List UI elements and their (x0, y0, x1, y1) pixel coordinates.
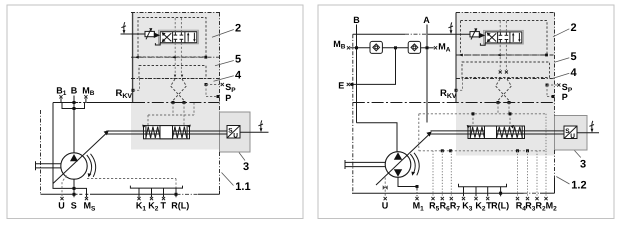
node R(L) (175, 193, 178, 196)
port risers R5 R6 R7 (432, 151, 434, 197)
node pump drain (73, 187, 76, 190)
svg-text:U: U (570, 133, 575, 140)
gray manifold block (131, 12, 220, 150)
wire between check valves (382, 47, 408, 49)
wire B1/M_B loop (62, 103, 85, 109)
pump 1.1 (61, 153, 87, 179)
node E riser top (394, 46, 397, 49)
svg-text:4: 4 (235, 70, 242, 82)
wire B main line (53, 102, 78, 104)
svg-text:1.1: 1.1 (235, 181, 250, 193)
plug x S_P R (557, 83, 560, 86)
transducer output (240, 131, 269, 133)
valve body 4/3 (160, 32, 197, 43)
node manifold pilots (472, 112, 475, 115)
box 3R transducer housing (555, 116, 588, 151)
enclosure 1.2 border top (456, 12, 555, 14)
plug x U (60, 197, 63, 200)
node P tap (217, 95, 220, 98)
svg-text:U: U (58, 201, 65, 211)
node E border (351, 83, 354, 86)
pilot manifold left (418, 114, 420, 151)
plate 5 dotted frame (139, 66, 206, 79)
port B1 stub (60, 98, 62, 102)
plug x K1 K2 T (137, 197, 140, 200)
transducer S/U R (564, 126, 577, 139)
wire pump bottom drain R (398, 177, 417, 187)
svg-text:1.2: 1.2 (571, 180, 586, 192)
wire B port riser (73, 96, 75, 154)
stroking cylinder R (468, 126, 525, 139)
pilot x marks plate 4R (499, 71, 502, 74)
pump rotation arc (87, 155, 92, 176)
plate 4 dash-dot line (131, 78, 220, 80)
spring left (146, 127, 160, 138)
solenoid proportional arrow (471, 30, 476, 40)
valve cell crossed arrows (488, 33, 497, 41)
plug x U R (384, 197, 387, 200)
pilot to cylinder left (147, 115, 149, 127)
node diamond R left (497, 101, 500, 104)
svg-text:E: E (338, 81, 344, 91)
valve sleeve (159, 30, 199, 44)
plug x M1 (415, 197, 418, 200)
enclosure 1.2 border left (352, 34, 354, 193)
pilot lines below valve (174, 43, 176, 75)
pump flow triangle (70, 154, 78, 161)
plug x K3 K2 T (462, 197, 465, 200)
piston rod (106, 130, 227, 132)
electrical signal arrow solenoid input R (450, 22, 453, 30)
node manifold R4 R3 (516, 149, 519, 152)
gray manifold block R (456, 12, 555, 156)
wire left branch (53, 103, 74, 189)
tank comb (130, 186, 182, 189)
pump rotation arc R (410, 154, 415, 174)
enclosure 1.1 border right lower (219, 152, 221, 191)
svg-text:R(L): R(L) (491, 201, 509, 211)
wire P line R (dash-dot) (353, 102, 555, 104)
riser M1 (416, 187, 418, 197)
wire A work line (426, 25, 428, 123)
pilot drop from diamond (172, 103, 174, 116)
pilot arrows at cylinder R (467, 125, 471, 129)
plate 5R dotted frame (462, 62, 550, 78)
wire solenoid lead (121, 33, 146, 35)
pump drive shaft R (345, 161, 385, 163)
pilot manifold top (419, 113, 546, 115)
pilot horizontal link (148, 114, 194, 116)
check valve B (370, 41, 382, 53)
tank comb R (459, 184, 507, 187)
spring right R (497, 127, 523, 138)
drain U (62, 176, 67, 197)
enclosure 1.2 border right lower (554, 150, 556, 178)
proportional solenoid (145, 31, 154, 36)
stroking piston R (485, 126, 497, 139)
svg-text:A: A (423, 15, 430, 25)
node B x M_B (355, 46, 358, 49)
pilot lines above valve (174, 18, 176, 32)
pilot arrows at cylinder (142, 125, 146, 129)
check valve A (408, 41, 420, 53)
wire P line inside block (133, 102, 220, 104)
section line with view arrows (131, 56, 220, 58)
node diamond right (183, 101, 186, 104)
svg-text:4: 4 (571, 67, 578, 79)
wire pump outlet down (73, 179, 75, 197)
pilot manifold bottom (419, 150, 546, 152)
feedback lever (53, 134, 106, 184)
pilot cross tap (193, 103, 195, 116)
electrical signal arrow transducer (260, 120, 263, 128)
pump flow triangle up (394, 152, 402, 159)
solenoid proportional arrow (146, 30, 151, 40)
plug x R-ports M2 (431, 197, 434, 200)
wire B work line (356, 25, 358, 123)
svg-text:3: 3 (243, 161, 249, 173)
node diamond left (172, 101, 175, 104)
valve cell closed center (499, 32, 501, 35)
wire M_A stub (421, 47, 434, 49)
enclosure 1.1 border bottom (41, 193, 78, 195)
valve cell crossed arrows (163, 33, 172, 41)
plate 4R dash-dot line (456, 78, 555, 80)
transducer S/U (227, 126, 240, 139)
node M1 drain (416, 185, 419, 188)
pump 1.2 (385, 152, 411, 178)
spring left R (470, 127, 484, 138)
svg-text:B: B (71, 85, 78, 95)
svg-text:5: 5 (571, 51, 577, 63)
valve cell parallel arrows (512, 35, 514, 42)
node manifold R6 R7 (441, 149, 444, 152)
svg-text:S: S (71, 201, 77, 211)
valve return spring hook (155, 43, 160, 45)
valve cell parallel arrows (187, 35, 189, 42)
panel frame right (318, 5, 614, 219)
transducer output R (577, 132, 599, 134)
section line R with view arrows (456, 54, 555, 56)
cylinder end caps (145, 126, 147, 139)
case drain line (87, 178, 176, 180)
solenoid actuation triangle (479, 33, 485, 39)
wire M_B stub (350, 47, 370, 49)
svg-text:U: U (382, 201, 389, 211)
svg-text:B: B (353, 15, 360, 25)
port S_P tap (205, 83, 208, 86)
port M_B stub (85, 98, 87, 102)
valve cell closed center (174, 32, 176, 35)
pump drive shaft (36, 163, 62, 165)
valve return spring hook (480, 43, 485, 45)
svg-text:P: P (562, 92, 568, 102)
svg-text:P: P (225, 93, 231, 103)
node diamond R right (508, 101, 511, 104)
node B main (73, 101, 76, 104)
node A x M_A (426, 46, 429, 49)
box 3 transducer housing (220, 112, 251, 152)
solenoid actuation triangle (154, 32, 160, 38)
wire pump outlet to B line (357, 123, 398, 152)
node S (73, 193, 76, 196)
pilot to cylinder right (183, 103, 185, 127)
node P tap R (552, 95, 555, 98)
solenoid lead long wire R (353, 33, 405, 35)
pilot crossing diamond R (496, 79, 509, 103)
wire E riser (350, 48, 396, 85)
pilots to cylinder R (472, 114, 474, 127)
svg-text:T: T (161, 201, 167, 211)
node B loop (73, 107, 76, 110)
svg-text:R(L): R(L) (171, 201, 189, 211)
pilot crossing diamond (171, 79, 184, 103)
electrical signal arrow solenoid input (123, 22, 126, 30)
orifice symbol (383, 185, 386, 190)
pilot diamond drops R (497, 103, 499, 114)
drain U R (384, 178, 386, 197)
panel frame left (7, 5, 303, 219)
port risers R4 R3 R2 M2 (517, 151, 519, 197)
svg-text:5: 5 (235, 54, 241, 66)
valve sleeve (484, 30, 524, 44)
piston rod R (431, 130, 565, 132)
svg-text:U: U (233, 133, 238, 140)
feedback lever R (376, 135, 429, 185)
wire solenoid lead R (447, 33, 471, 35)
enclosure 1.1 border right upper (219, 13, 221, 113)
pilot arrowheads into plate 4 (174, 75, 176, 78)
electrical signal arrow transducer R (591, 121, 594, 129)
port M_S link (74, 188, 87, 197)
proportional solenoid (470, 32, 479, 37)
enclosure 1.1 border top (131, 12, 220, 14)
enclosure 1.2 border right upper (554, 13, 556, 116)
svg-text:2: 2 (571, 22, 577, 34)
spring right (173, 127, 187, 138)
enclosure 1.1 border left (40, 110, 42, 194)
pump flow triangle down (394, 169, 402, 176)
stroking piston (160, 126, 173, 139)
port S_P tap R (546, 84, 549, 87)
valve body 4/3 (485, 32, 522, 43)
pilot lines below valve R (499, 45, 501, 70)
valve 2 dotted frame (138, 18, 206, 58)
pilot M2 drop (545, 114, 547, 151)
pilot lines above valve R (499, 21, 501, 32)
stroking cylinder (144, 126, 190, 139)
enclosure 1.2 border bottom (352, 192, 524, 194)
valve 2R dotted frame (461, 21, 548, 56)
plug x M_S (85, 197, 88, 200)
svg-text:3: 3 (580, 158, 586, 170)
cylinder end caps R (469, 126, 471, 139)
svg-text:2: 2 (235, 23, 241, 35)
